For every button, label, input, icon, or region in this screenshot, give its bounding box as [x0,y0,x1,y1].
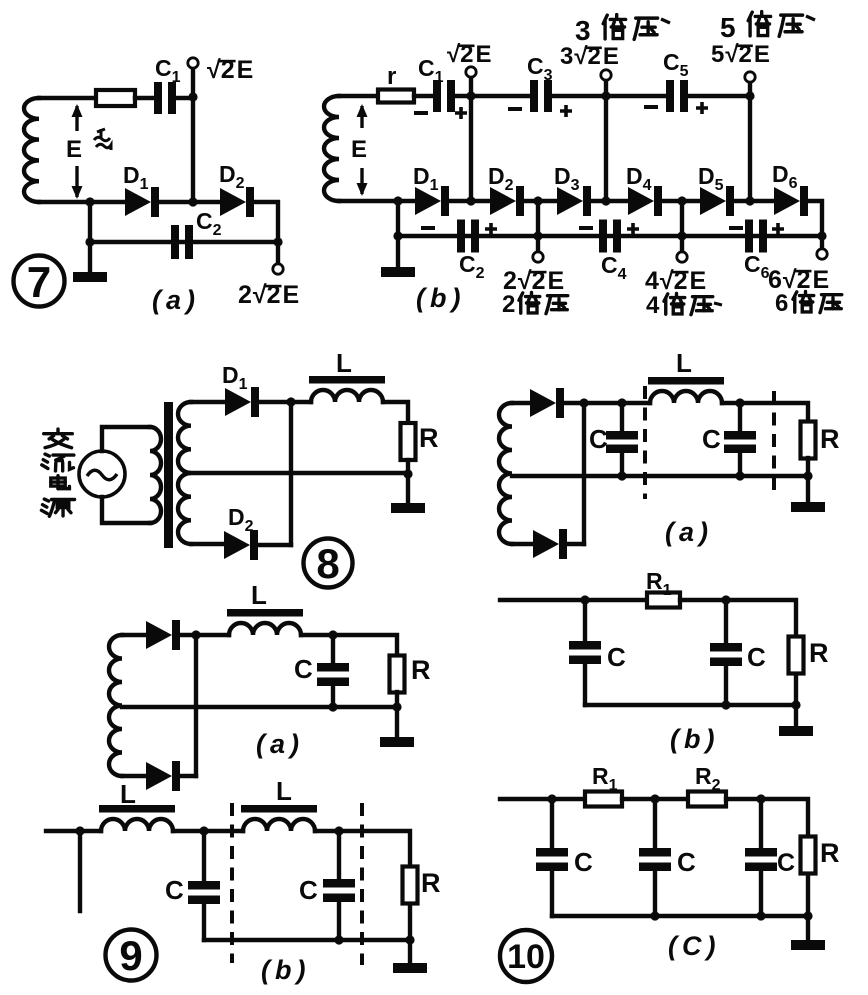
node [393,231,402,240]
plus sign of C5 [696,102,708,114]
terminal sqrt2E [466,67,476,77]
node [677,196,686,205]
svg-text:4: 4 [645,267,659,295]
wire [39,96,96,100]
svg-text:C: C [607,642,626,672]
svg-text:(C): (C) [668,931,720,961]
wire to C [331,635,335,663]
wire from C [759,871,763,916]
svg-text:R: R [820,838,840,868]
node [85,237,94,246]
wire [180,633,229,637]
label yuan [41,499,74,516]
wire from node 5sqrt2E down [748,96,752,201]
wire [414,94,433,98]
dash after ya [714,303,722,305]
wire [740,403,808,422]
resistor R [801,422,816,459]
capacitor C1 [433,80,455,112]
node [334,935,343,944]
wire from C [653,871,657,916]
capacitor C3 [530,80,552,112]
resistor R [390,656,405,693]
node [403,469,412,478]
wire from C [202,904,206,940]
diode D6 [774,186,808,216]
resistor R1 [585,792,622,807]
choke L second [241,805,317,831]
wire from C [724,666,728,705]
capacitor C second [323,879,355,902]
plus sign of C6 [772,223,784,235]
bottom rail [122,705,397,709]
capacitor C5 [666,80,688,112]
label ya (6x) [820,295,842,313]
wire down to 2sqrt2E node [536,201,540,236]
diode D1 [125,187,159,217]
capacitor C first [536,848,568,871]
svg-text:(b): (b) [416,283,465,313]
wire to terminal [536,236,540,252]
label 2 sqrt2 E [238,281,299,309]
wire to ground [88,242,92,272]
node [756,911,765,920]
dash after ya [806,16,815,20]
terminal 2sqrt2E [533,252,543,262]
svg-text:R: R [421,868,441,898]
svg-text:R: R [809,638,829,668]
plus sign of C1 [455,107,467,119]
svg-text:7: 7 [27,258,51,307]
section boundary dashed line [643,386,647,499]
terminal 5sqrt2E [745,72,755,82]
capacitor C second [639,848,671,871]
svg-text:3: 3 [575,15,591,46]
wire from C [583,664,587,705]
wire from node 3sqrt2E down [604,96,608,201]
node [650,794,659,803]
wire to C [202,831,206,881]
wire [39,200,125,204]
wire to C [550,799,554,848]
AC source [79,451,125,497]
wire [191,68,195,97]
wire to ground [408,940,412,963]
label bei (5x) [748,12,770,36]
resistor R [401,423,416,460]
wire to ground [395,707,399,737]
wire to C [583,600,587,641]
AC ripple mark [94,129,111,150]
capacitor C first [606,431,638,453]
svg-text:C: C [574,847,593,877]
plus sign of C4 [627,223,639,235]
wire [808,201,822,236]
resistor R [801,837,816,874]
node [721,595,730,604]
wire to C [724,600,728,643]
diode [146,620,180,650]
svg-text:(b): (b) [670,724,719,754]
diode D2 [490,186,524,216]
node [392,702,401,711]
node [286,397,295,406]
input wire [500,598,647,602]
wire [301,633,333,637]
svg-text:C: C [294,654,313,684]
node [803,471,812,480]
svg-text:4: 4 [646,292,660,319]
wire [135,96,154,100]
bottom rail [398,201,822,236]
node 3sqrt2E [601,91,610,100]
label bei (2x) [519,292,540,313]
node at C1 output [188,92,197,101]
capacitor C third [745,848,777,871]
bottom wire [512,542,533,546]
node [803,911,812,920]
wire [383,402,408,423]
svg-text:R: R [411,655,431,685]
top wire [512,401,530,405]
ground [791,940,825,950]
minus sign of C1 [414,111,428,115]
wire [449,199,490,203]
svg-text:r: r [387,63,396,90]
svg-text:E: E [66,136,82,163]
capacitor C2 [457,220,479,253]
svg-text:C: C [777,849,795,877]
node [533,196,542,205]
capacitor C6 [745,220,767,253]
wire from C [738,453,742,476]
svg-text:8: 8 [316,540,339,587]
node [817,231,826,240]
svg-text:5: 5 [720,12,736,43]
svg-text:(a): (a) [152,285,200,315]
svg-text:3: 3 [560,43,573,70]
wire [254,202,278,242]
input wire [500,797,585,801]
svg-text:5: 5 [711,41,724,68]
svg-text:(a): (a) [665,517,713,547]
cathode bus vertical [289,402,293,545]
node [188,197,197,206]
svg-text:E: E [690,267,707,295]
node [756,794,765,803]
wire from C [620,453,624,476]
svg-text:L: L [676,348,692,378]
label sqrt2 E top [447,41,492,68]
resistor R1 [647,593,680,608]
bottom rail [512,474,808,478]
label 3 sqrt2 E [560,43,619,70]
label 6 sqrt2 E [768,266,829,294]
svg-text:E: E [476,41,492,68]
diode D3 [557,186,591,216]
wire from C1 node down [191,97,195,202]
wire to source bottom [102,497,150,523]
node [580,595,589,604]
wire [159,200,220,204]
ground [791,502,825,512]
svg-text:E: E [813,266,830,294]
wire [722,401,740,405]
wire up to terminal [604,80,608,96]
secondary bottom wire [191,542,224,546]
bottom wire [122,774,146,778]
minus sign of C3 [508,107,522,111]
wire to terminal [820,236,824,249]
svg-text:(a): (a) [256,729,304,759]
node [579,398,588,407]
minus sign of C5 [644,105,658,109]
ground [381,267,415,277]
wire from C [331,686,335,707]
wire to ground [794,705,798,726]
wire [680,600,796,636]
bottom rail [204,938,410,942]
figure 7b transformer winding [324,96,339,201]
E arrow down [357,168,368,196]
top wire [122,633,146,637]
diode D2 [220,187,254,217]
label sqrt2 E [207,56,253,84]
figure number 7 [14,256,65,308]
wire [524,199,557,203]
node [328,702,337,711]
minus sign of C4 [579,226,593,230]
choke L [648,377,724,403]
label bei (3x) [603,15,625,39]
wire [552,94,666,98]
section boundary dashed line [772,391,776,497]
capacitor C second [710,643,742,666]
ground [73,272,107,282]
label ya (2x) [546,296,568,314]
label 2 sqrt2 E [503,267,564,295]
node [191,630,200,639]
input wire [46,829,101,833]
capacitor C first [188,881,220,904]
wire [258,543,291,547]
cathode bus vertical [194,635,198,776]
svg-text:L: L [336,348,352,378]
label bei (6x) [793,291,814,312]
wire [173,829,243,833]
centre tap wire [191,471,408,475]
wire [591,199,628,203]
plus sign of C3 [560,105,572,117]
section boundary dashed line [230,803,234,963]
wire from node sqrt2E down [469,96,473,201]
node [273,237,282,246]
node [533,231,542,240]
capacitor C2 [171,225,193,259]
wire to ground [806,476,810,502]
wire to C [620,403,624,431]
node [328,630,337,639]
node [650,911,659,920]
E arrow up [357,104,368,128]
svg-text:C: C [299,875,318,905]
svg-text:C: C [702,424,721,454]
diode D1 [415,186,449,216]
capacitor C [317,663,349,686]
resistor (series r) [96,90,135,106]
node [393,196,402,205]
resistor R [789,637,804,674]
ground [380,737,414,747]
capacitor C second [724,431,756,453]
choke L [227,609,303,635]
wire to C [337,831,341,879]
wire [806,874,810,916]
wire [176,96,193,100]
svg-text:C: C [165,875,184,905]
wire from C [550,871,554,916]
wire [726,799,808,836]
node sqrt2E [466,91,475,100]
capacitor C4 [599,220,621,253]
wire [662,199,700,203]
wire [395,692,399,707]
node [334,826,343,835]
svg-text:E: E [283,281,300,309]
svg-text:(b): (b) [261,955,310,985]
choke L [309,376,385,402]
section boundary dashed line [360,803,364,965]
wire up to terminal [748,82,752,96]
diode D4 [628,186,662,216]
ground [391,503,425,513]
wire [806,458,810,476]
wire [333,635,397,656]
svg-text:L: L [276,776,292,806]
label jiao [44,429,73,448]
figure number 9 [106,930,157,981]
ground [779,726,813,736]
label ya (5x) [779,15,802,36]
svg-text:10: 10 [507,938,545,976]
wire [406,460,410,474]
label dian [51,476,70,489]
node [85,197,94,206]
label liu [42,454,74,471]
terminal 4sqrt2E [677,252,687,262]
diode D2 [224,530,258,560]
wire [339,831,410,866]
svg-text:2: 2 [238,281,252,309]
label ya (4x) [691,297,713,315]
node [735,398,744,407]
plus sign of C2 [485,223,497,235]
dash after ya [661,19,670,23]
cathode bus vertical [582,403,586,544]
figure number 8 [304,539,353,588]
E arrow up [72,104,83,131]
svg-text:E: E [754,41,770,68]
node [405,935,414,944]
transformer primary winding [150,427,161,523]
label 4 sqrt2 E [645,267,706,295]
node [735,471,744,480]
capacitor C1 [154,82,176,114]
svg-text:2: 2 [502,291,515,318]
terminal 6sqrt2E [817,249,827,259]
resistor R2 [688,792,726,807]
node [791,700,800,709]
svg-text:C: C [677,847,696,877]
node [75,826,84,835]
resistor r [378,90,414,103]
node [617,471,626,480]
svg-text:R: R [419,423,439,453]
transformer core [164,402,173,548]
wire to ground [406,474,410,503]
diode [530,388,564,418]
wire to output terminal [276,242,280,264]
svg-text:E: E [351,136,367,163]
wire [794,674,798,705]
E arrow down [72,166,83,199]
wire [564,401,650,405]
svg-text:E: E [237,56,254,84]
svg-text:6: 6 [775,290,788,317]
terminal sqrt2E [188,58,198,68]
figure 10a transformer winding [499,403,512,544]
wire [734,199,774,203]
wire [315,829,339,833]
choke L first [99,805,175,831]
node 5sqrt2E [745,91,754,100]
bottom rail [585,703,796,707]
node [601,196,610,205]
svg-text:C: C [747,642,766,672]
input stub down [78,831,82,911]
wire [408,904,412,940]
svg-text:L: L [120,779,136,809]
resistor R [403,867,418,904]
wire from source top [102,427,150,451]
wire [622,797,688,801]
label ya (3x) [634,18,657,39]
terminal 2sqrt2E [273,264,283,274]
label bei (4x) [664,293,685,314]
svg-text:E: E [548,267,565,295]
node [617,398,626,407]
label 5 sqrt2 E [711,41,770,68]
wire up to terminal [469,77,473,96]
wire to ground [806,916,810,940]
diode D1 [225,387,259,417]
transformer secondary winding [178,402,191,544]
svg-text:R: R [820,424,840,454]
capacitor C first [569,641,601,664]
wire to C [759,799,763,848]
figure 9a transformer winding [109,635,122,776]
wire [180,774,196,778]
diode [533,529,567,559]
node [677,231,686,240]
svg-text:L: L [251,580,267,610]
diode D5 [700,186,734,216]
ground [393,963,427,973]
wire [567,542,584,546]
wire to C [653,799,657,848]
wire down to 4sqrt2E node [680,201,684,236]
svg-text:C: C [589,424,608,454]
